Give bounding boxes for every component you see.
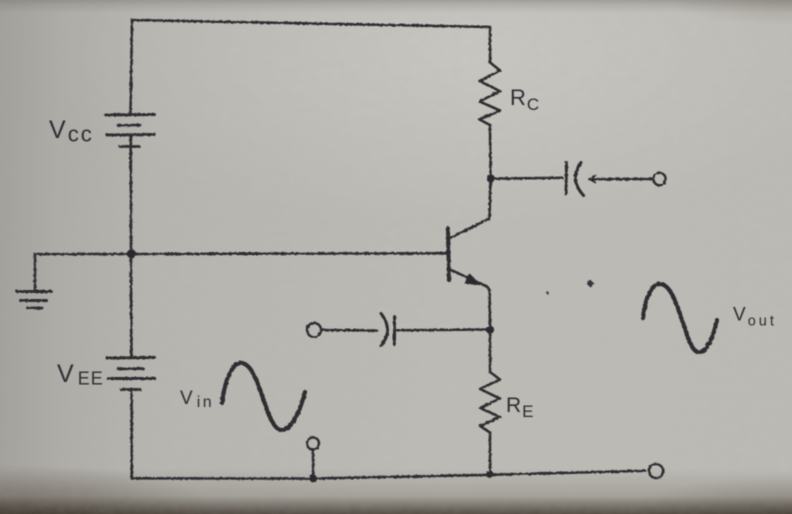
svg-text:Vcc: Vcc bbox=[49, 116, 94, 147]
